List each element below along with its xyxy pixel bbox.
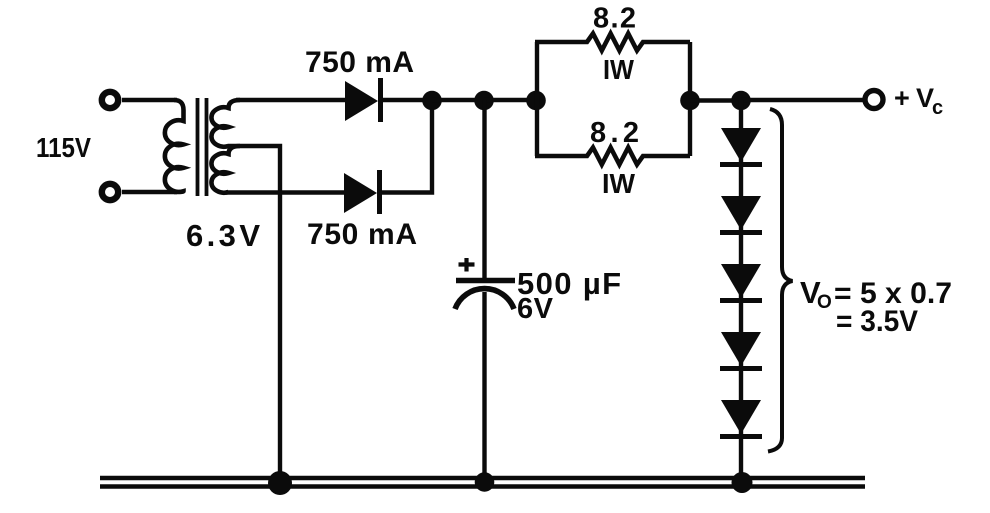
resistor network left vertical [535, 42, 539, 156]
wire capacitor C1 to ground bus [482, 292, 486, 481]
wire node D to node E [690, 98, 741, 102]
capacitor C1 negative plate (arc) [455, 289, 514, 309]
svg-text:6.3V: 6.3V [186, 218, 260, 253]
node B junction dot [474, 91, 494, 111]
diode D1 [345, 81, 378, 121]
wire node E down diode string [739, 100, 743, 482]
wire node E to output terminal [741, 98, 864, 102]
svg-text:O: O [817, 292, 832, 313]
wire secondary center tap [228, 146, 280, 480]
capacitor C1 positive plate [456, 278, 515, 283]
node A junction dot [422, 91, 442, 111]
transformer T1 primary winding [165, 100, 184, 192]
wire D1 cathode to node A [380, 98, 436, 102]
wire node B to node C [484, 98, 537, 102]
wire node A to node B [432, 98, 484, 102]
ground bus lower line [100, 484, 865, 488]
wire J2 to transformer primary bottom [122, 190, 177, 194]
svg-text:IW: IW [603, 54, 635, 85]
diode D2 [344, 173, 377, 213]
junction dot center tap to bus [268, 471, 292, 495]
resistor network right vertical [688, 42, 692, 156]
wire D2 cathode up to node A [379, 100, 432, 193]
diode D4 [721, 196, 761, 230]
svg-text:c: c [932, 97, 943, 119]
terminal J2 (AC input bottom) [102, 184, 118, 200]
svg-text:IW: IW [602, 168, 636, 199]
svg-text:8.2: 8.2 [590, 117, 639, 149]
resistor R2 bottom branch with zigzag [535, 148, 690, 165]
wire secondary top lead to diode D1 [236, 98, 350, 102]
diode D3 [721, 128, 761, 162]
junction dot diode string to bus [732, 472, 753, 493]
junction dot capacitor to bus [475, 472, 495, 492]
diode D6 [721, 332, 761, 366]
svg-text:115V: 115V [36, 132, 91, 163]
ground bus upper line [100, 476, 865, 480]
diode D5 [721, 264, 761, 298]
svg-text:750 mA: 750 mA [307, 218, 417, 251]
svg-text:8.2: 8.2 [593, 3, 636, 35]
node E junction dot [731, 91, 751, 111]
resistor R1 top branch with zigzag [535, 34, 690, 51]
wire node B down to capacitor C1 [482, 100, 486, 280]
wire secondary bottom lead to diode D2 [226, 190, 350, 194]
terminal +Vc output [865, 91, 883, 109]
node C junction dot [526, 91, 546, 111]
brace for Vo [768, 109, 793, 452]
transformer T1 core [196, 98, 200, 196]
transformer T1 secondary winding upper half [211, 100, 240, 147]
svg-text:6V: 6V [517, 293, 554, 325]
svg-text:750 mA: 750 mA [305, 46, 414, 79]
transformer T1 secondary winding lower half [211, 146, 240, 193]
capacitor C1 plus sign [459, 258, 475, 272]
node D junction dot [680, 91, 700, 111]
wire J1 to transformer primary top [122, 98, 177, 102]
terminal J1 (AC input top) [102, 92, 118, 108]
diode D7 [721, 400, 761, 434]
svg-text:= 3.5V: = 3.5V [836, 305, 918, 338]
